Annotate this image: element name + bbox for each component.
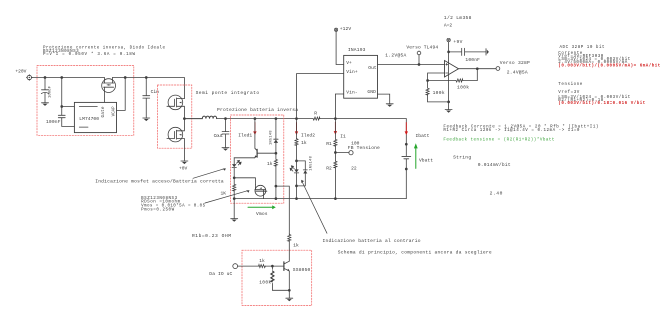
- wire riser to INA Vin-: [335, 94, 343, 119]
- wire terminal to 1k: [238, 265, 273, 267]
- annotation arrow to LED D2: [193, 168, 226, 178]
- svg-text:Indicazione mosfet acceso/Batt: Indicazione mosfet acceso/Batteria corre…: [95, 178, 224, 184]
- transistor M2 high-side MOSFET: [167, 95, 185, 119]
- resistor 100k to ground: [427, 81, 429, 102]
- svg-text:R1: R1: [326, 141, 332, 147]
- svg-text:+20V: +20V: [15, 69, 26, 75]
- chip LM74700: [74, 102, 116, 132]
- node: anode pin junction: [60, 105, 63, 108]
- terminal Verso TL494: [417, 51, 421, 55]
- dashed box: protezione batteria inversa: [231, 115, 284, 203]
- svg-text:(0.003V/bit)/0.18=0.016 V/bit: (0.003V/bit)/0.18=0.016 V/bit: [558, 101, 645, 106]
- node: feedback left junction: [426, 79, 429, 82]
- power terminal +12V: [335, 28, 338, 31]
- svg-text:1/2 Lm358: 1/2 Lm358: [444, 15, 472, 21]
- svg-text:1K: 1K: [221, 191, 227, 197]
- annotation arrow to MOSFET M4: [205, 190, 250, 203]
- svg-text:R2: R2: [326, 165, 332, 171]
- svg-text:Iled2: Iled2: [301, 132, 315, 138]
- node: rail junction at Cin: [145, 76, 148, 79]
- ground below INA: [386, 104, 393, 107]
- dashed box: transistor driver: [242, 250, 312, 305]
- pin line gnd inside chip: [79, 126, 88, 128]
- LED D3 reverse indicator: [290, 161, 299, 186]
- capacitor Cin: [143, 78, 150, 118]
- ground below Cout: [222, 148, 229, 151]
- svg-text:+9V: +9V: [453, 39, 462, 45]
- node: rail junction R1/Vin-: [334, 117, 337, 120]
- op-amp U2 LM358: [445, 61, 459, 78]
- transistor M1 ideal-diode MOSFET: [102, 78, 116, 103]
- resistor 1k (base pulldown): [275, 153, 277, 186]
- power terminal +20V: [26, 75, 32, 81]
- transistor M4 indicator MOSFET: [255, 185, 267, 199]
- wire inverting input: [428, 73, 445, 81]
- wire ground stub: [233, 199, 235, 219]
- node: rail junction at 1K bottom: [233, 197, 236, 200]
- wire to TL494 terminal: [418, 55, 420, 65]
- ground sideways at cap: [486, 49, 489, 55]
- node: Q1 base junction: [275, 152, 278, 155]
- node: out junction to TL494: [418, 63, 421, 66]
- node: ground junction: [447, 101, 450, 104]
- svg-text:Feedback tensione = (R2(R1+R2): Feedback tensione = (R2(R1+R2))*Vbatt: [443, 138, 554, 143]
- svg-text:100k: 100k: [457, 84, 469, 90]
- wire INA out to op-amp: [378, 64, 445, 66]
- svg-text:Semi ponte integrato: Semi ponte integrato: [196, 90, 260, 96]
- svg-text:Verso 328P: Verso 328P: [500, 60, 530, 66]
- svg-text:100k: 100k: [433, 90, 445, 96]
- svg-text:R1b=0.23 OHM: R1b=0.23 OHM: [192, 233, 231, 239]
- transistor M3 low-side MOSFET: [167, 119, 185, 161]
- diode D4 1N5148 antiparallel: [297, 161, 308, 186]
- chip INA193: [344, 55, 378, 98]
- wire phase rail to battery corner: [217, 118, 407, 120]
- svg-text:Iled1: Iled1: [238, 133, 252, 139]
- resistor R 1K (LED): [233, 178, 235, 199]
- wire +20V rail to MOSFET: [32, 77, 105, 79]
- wire down to rail: [296, 186, 298, 199]
- resistor 100k feedback: [428, 80, 478, 82]
- wire 100nF to LM74700 lower pin: [62, 125, 75, 127]
- svg-text:INA193: INA193: [348, 47, 366, 53]
- node: rail junction at C-elec: [44, 76, 47, 79]
- wire riser to INA Vin+: [297, 74, 344, 119]
- wire anode branch down: [61, 78, 63, 107]
- svg-text:Protezione batteria inversa: Protezione batteria inversa: [217, 107, 298, 113]
- wire 100k to emitter: [272, 289, 289, 291]
- wire emitter down: [288, 271, 290, 298]
- node: rail junction Iled2: [295, 117, 298, 120]
- svg-text:Verso TL494: Verso TL494: [406, 44, 438, 50]
- svg-text:2.40: 2.40: [490, 191, 503, 197]
- svg-text:LM74700: LM74700: [79, 116, 99, 122]
- wire Iled1 to Q1 collector: [254, 119, 256, 149]
- svg-text:Cout: Cout: [214, 133, 224, 139]
- svg-text:2.4V@5A: 2.4V@5A: [507, 69, 528, 75]
- capacitor 100nF: [58, 107, 65, 127]
- node: battery top junction: [405, 143, 408, 146]
- svg-text:Vref=3V: Vref=3V: [558, 90, 579, 95]
- node: junction LED / R / gate wire: [233, 176, 236, 179]
- terminal Verso 328P: [496, 67, 500, 71]
- svg-text:Pmos=0.250W: Pmos=0.250W: [141, 208, 174, 212]
- voltage arrow Vmos (green): [248, 205, 276, 209]
- node: emitter junction: [288, 289, 291, 292]
- current arrow Iled2: [295, 123, 298, 135]
- svg-text:ADC 328P 10 bit: ADC 328P 10 bit: [560, 45, 605, 50]
- node: rail junction diode branch: [275, 117, 278, 120]
- svg-text:1k: 1k: [301, 140, 307, 146]
- node: junction to SS8050 drive: [275, 185, 278, 188]
- ground +0V below low-side MOSFET: [181, 161, 188, 164]
- node: base divider junction: [271, 265, 274, 268]
- wire to base: [272, 265, 284, 267]
- diode D1 1N5148: [274, 119, 278, 154]
- svg-text:SS8050: SS8050: [293, 267, 311, 273]
- svg-text:VCAP: VCAP: [112, 106, 116, 116]
- wire junction down to rail: [275, 186, 277, 199]
- resistor 1k collector: [288, 234, 290, 261]
- pin line anode inside chip: [79, 106, 97, 108]
- wire cathode riser: [117, 78, 126, 111]
- annotation arrow to LED D3: [301, 180, 327, 234]
- ground below op-amp: [445, 110, 452, 113]
- svg-text:Vin+: Vin+: [346, 69, 358, 75]
- svg-text:GND: GND: [367, 89, 376, 95]
- ground below rail: [231, 219, 238, 222]
- wire to common ground: [428, 102, 449, 109]
- terminal Da IO uC: [233, 264, 238, 269]
- inductor L1: [184, 116, 216, 119]
- resistor R2 22: [334, 153, 336, 199]
- wire op-amp power through: [448, 61, 450, 102]
- LED D2 indicator (battery ok): [232, 158, 241, 178]
- node: output junction: [476, 67, 479, 70]
- svg-text:1k: 1k: [259, 258, 265, 264]
- capacitor Cout: [224, 117, 227, 120]
- svg-text:R: R: [314, 111, 317, 117]
- svg-text:Vin-: Vin-: [346, 90, 358, 96]
- node: rail junction: [275, 197, 278, 200]
- wire anode pin to LM74700: [62, 106, 75, 108]
- resistor 1k base: [259, 265, 266, 268]
- wire drive run to SS8050 collector line: [276, 186, 289, 234]
- transistor Q1 NPN: [255, 148, 276, 158]
- svg-text:1.2V@5A: 1.2V@5A: [385, 53, 406, 59]
- svg-text:P=V*I = 0.050V * 3.6A = 0.18W: P=V*I = 0.050V * 3.6A = 0.18W: [43, 52, 135, 57]
- node: LED/diode top junction: [295, 160, 298, 163]
- wire to Fb terminal: [335, 152, 349, 154]
- node: rail junction: [295, 197, 298, 200]
- terminal Fb Tensione: [349, 151, 353, 155]
- svg-text:Schema di principio, component: Schema di principio, componenti ancora d…: [338, 250, 492, 256]
- svg-text:100k: 100k: [259, 280, 271, 286]
- svg-text:V+: V+: [346, 60, 352, 66]
- svg-text:1N5148: 1N5148: [270, 131, 274, 146]
- node: battery bottom junction: [405, 168, 408, 171]
- svg-text:1k: 1k: [267, 161, 273, 167]
- wire op-amp output: [459, 68, 497, 70]
- svg-text:A=2: A=2: [444, 23, 453, 29]
- dashed box: protezione corrente inversa: [37, 66, 134, 136]
- svg-text:R1+R2 Circa 120k -> I1@14.4V =: R1+R2 Circa 120k -> I1@14.4V = 0.12mA ->…: [443, 128, 579, 133]
- node: rail junction at anode/100nF branch: [60, 76, 63, 79]
- resistor 1k (Iled2): [296, 119, 298, 161]
- ground below C-elec: [42, 103, 49, 106]
- wire rail MOSFET to half-bridge corner: [113, 78, 185, 99]
- wire feedback riser: [476, 69, 478, 81]
- dashed box: semi ponte integrato: [158, 85, 192, 148]
- wire INA GND to ground: [378, 94, 390, 103]
- voltage arrow Vbatt (green): [414, 143, 418, 168]
- svg-text:Vmos: Vmos: [256, 211, 268, 217]
- capacitor 100nF decoupling: [449, 48, 486, 55]
- svg-text:Tensione: Tensione: [558, 82, 582, 87]
- svg-text:22: 22: [351, 165, 357, 171]
- resistor R shunt in rail: [313, 117, 320, 120]
- node: LED/diode bottom junction: [295, 185, 298, 188]
- node: rail junction Iled1: [254, 117, 257, 120]
- svg-text:I1: I1: [340, 133, 346, 139]
- svg-text:Gate: Gate: [102, 106, 106, 117]
- svg-text:0.014mV/bit: 0.014mV/bit: [478, 162, 511, 168]
- current arrow Ibatt: [405, 123, 408, 135]
- resistor 100k base-emitter: [271, 266, 273, 290]
- svg-text:Ibatt: Ibatt: [416, 133, 430, 139]
- current arrow I1: [334, 122, 337, 134]
- svg-text:100nF: 100nF: [465, 57, 480, 63]
- node: phase node junction: [183, 117, 186, 120]
- svg-text:Indicazione batteria al contra: Indicazione batteria al contrario: [323, 238, 421, 244]
- svg-text:(0.003V/bit)/(0.0005V/mA)= 6mA: (0.003V/bit)/(0.0005V/mA)= 6mA/bit: [558, 63, 660, 68]
- node: +9V junction: [447, 51, 450, 54]
- wire bottom rail: [234, 198, 406, 200]
- svg-text:1N5148: 1N5148: [310, 156, 314, 171]
- ground below emitter: [286, 298, 293, 301]
- wire +9V down to op-amp V+: [448, 42, 450, 61]
- capacitor C-elec 100uF: [41, 78, 48, 103]
- svg-text:100nF: 100nF: [46, 119, 61, 125]
- wire battery column: [405, 119, 407, 199]
- battery BT1: [402, 156, 411, 158]
- svg-text:1k: 1k: [293, 243, 299, 249]
- node: rail junction at cathode: [124, 76, 127, 79]
- svg-text:100uF: 100uF: [49, 85, 53, 98]
- current arrow Iled1: [253, 123, 256, 135]
- svg-text:FB Tensione: FB Tensione: [348, 145, 380, 151]
- svg-text:+0V: +0V: [179, 166, 188, 172]
- power terminal +9V: [447, 38, 450, 41]
- resistor R1 100: [334, 119, 336, 153]
- ground below Cin: [143, 118, 150, 121]
- node: divider junction: [334, 151, 337, 154]
- svg-text:Vbatt: Vbatt: [419, 158, 433, 164]
- svg-text:String: String: [453, 154, 471, 160]
- wire Q1 emitter run: [234, 157, 255, 159]
- transistor Q2 SS8050: [284, 261, 289, 271]
- svg-text:Da IO uC: Da IO uC: [209, 271, 232, 277]
- svg-text:+12V: +12V: [340, 26, 352, 32]
- node: rail junction R2: [334, 197, 337, 200]
- wire +12V to V+: [336, 31, 344, 64]
- svg-text:Out: Out: [368, 65, 377, 71]
- wire to M4 left lead: [234, 178, 255, 185]
